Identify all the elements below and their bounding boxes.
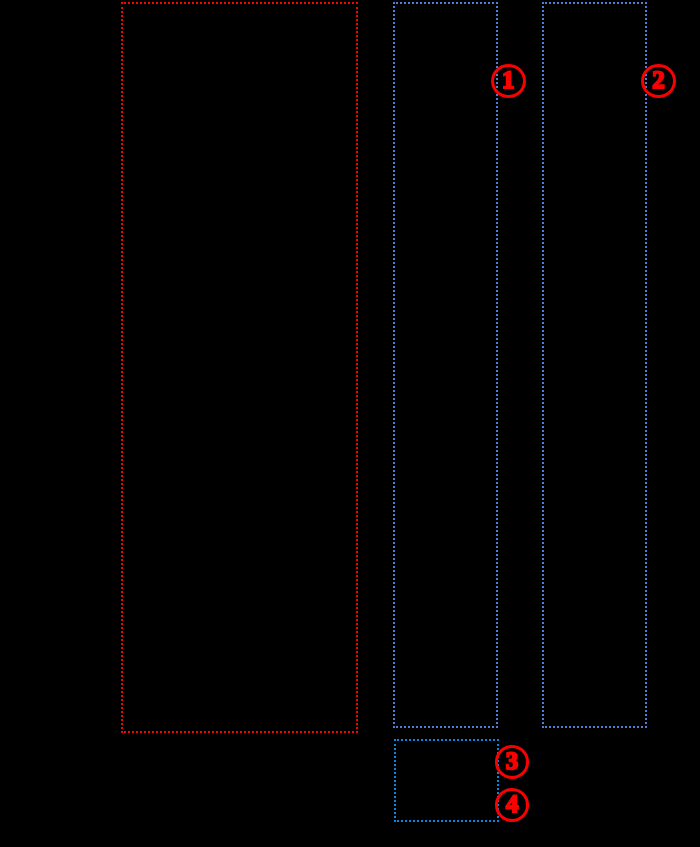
callout badge 3 <box>495 745 530 779</box>
red dotted region box (left panel) <box>121 2 358 733</box>
callout badge 2 <box>641 64 676 99</box>
blue dotted column box 1 <box>393 2 498 728</box>
callout badge 4 <box>495 788 530 822</box>
blue dotted column box 2 <box>542 2 647 728</box>
bright blue dotted bottom box <box>394 739 499 822</box>
callout badge 1 <box>491 64 526 99</box>
